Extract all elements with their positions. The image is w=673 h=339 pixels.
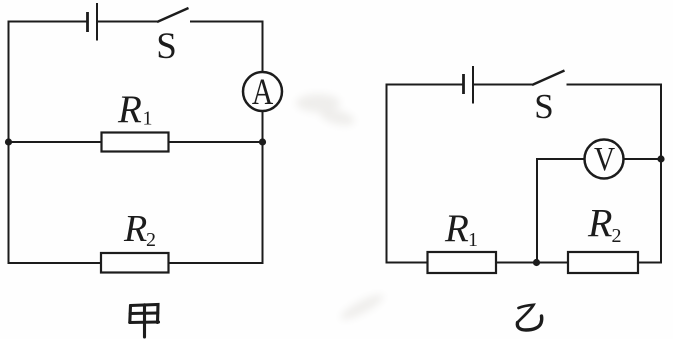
wire: battery to switch — [474, 84, 532, 86]
wire: switch to top-right corner — [567, 84, 663, 86]
wire: bottom row left segment — [387, 262, 428, 264]
wire: bottom row left segment — [9, 262, 102, 264]
svg-text:R: R — [117, 88, 142, 131]
resistor R1 box — [102, 133, 169, 152]
node: junction dot on right side — [657, 155, 664, 162]
svg-text:R: R — [587, 201, 612, 246]
wire: battery to switch — [98, 21, 157, 23]
wire: R1 row right segment — [169, 141, 263, 143]
svg-text:2: 2 — [612, 225, 622, 247]
node: left junction dot — [5, 138, 12, 145]
svg-text:S: S — [534, 87, 553, 126]
wire: voltmeter branch vertical — [536, 158, 538, 263]
wire: R1 row left segment — [9, 141, 103, 143]
wire: voltmeter to right side — [624, 158, 662, 160]
battery right (long/positive) plate — [96, 3, 98, 41]
node: junction dot between R1 and R2 — [533, 259, 540, 266]
wire: top-left segment to battery — [387, 84, 464, 86]
switch S blade (open) — [157, 8, 189, 22]
wire: right vertical down to ammeter — [262, 21, 264, 73]
switch S blade (open) — [532, 71, 565, 86]
ammeter A1 circle — [243, 72, 282, 111]
svg-text:R: R — [123, 208, 147, 250]
voltmeter V1 circle — [585, 140, 624, 179]
svg-text:A: A — [252, 72, 273, 113]
wire: right vertical side — [660, 84, 662, 264]
resistor R1 box — [428, 252, 497, 273]
caption 乙 (drawn glyph) — [517, 305, 541, 330]
wire: bottom middle segment — [496, 262, 568, 264]
wire: voltmeter branch left horizontal — [537, 158, 585, 160]
resistor R2 box — [568, 252, 638, 273]
battery right (long/positive) plate — [472, 66, 474, 104]
svg-text:R: R — [444, 207, 469, 250]
node: right junction dot — [259, 138, 266, 145]
svg-text:S: S — [156, 26, 177, 67]
svg-text:V: V — [594, 140, 615, 178]
wire: bottom row right segment — [638, 262, 662, 264]
resistor R2 box — [101, 253, 169, 273]
wire: top-left segment to battery — [9, 21, 88, 23]
svg-text:2: 2 — [146, 229, 156, 251]
caption 甲 (drawn glyph) — [130, 305, 159, 338]
wire: right vertical below node — [262, 142, 264, 264]
wire: left vertical side — [8, 21, 10, 265]
svg-text:1: 1 — [468, 229, 478, 251]
wire: left vertical side — [386, 84, 388, 264]
wire: bottom row right segment — [169, 262, 264, 264]
wire: switch to top-right corner — [190, 21, 264, 23]
battery left (short/negative) plate — [86, 12, 89, 32]
battery left (short/negative) plate — [462, 74, 465, 94]
wire: ammeter to right node — [262, 111, 264, 142]
svg-text:1: 1 — [143, 108, 153, 130]
